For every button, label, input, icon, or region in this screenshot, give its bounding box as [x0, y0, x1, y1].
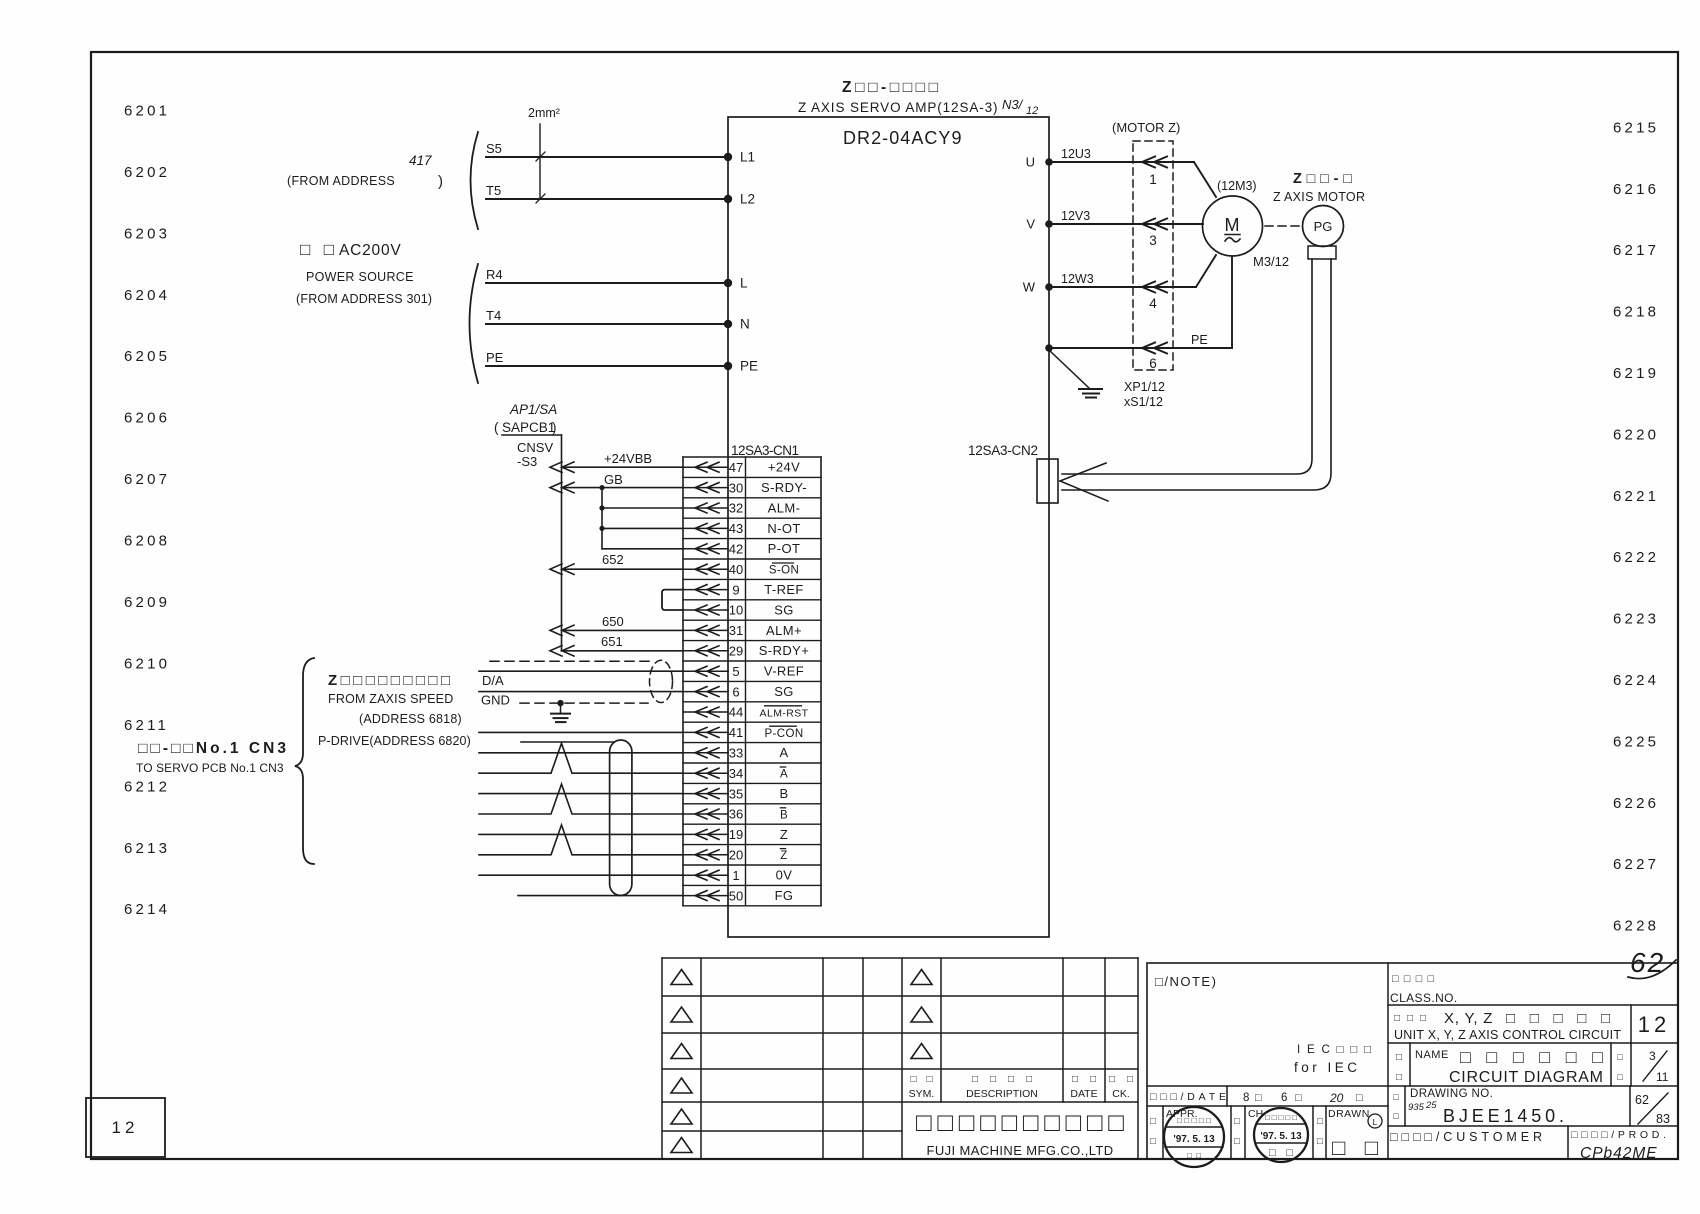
connector XP1/12 (MOTOR Z) dashed outline [1112, 120, 1180, 370]
svg-text:6204: 6204 [124, 287, 170, 304]
svg-text:□: □ [1356, 1092, 1363, 1104]
wire 651 from pin 29 to CNSV-S3 [550, 634, 683, 656]
svg-text:42: 42 [729, 542, 743, 557]
svg-text:50: 50 [729, 888, 743, 903]
node 6205 (left line number) [124, 348, 170, 365]
svg-text:DR2-04ACY9: DR2-04ACY9 [843, 128, 963, 148]
svg-text:DRAWN: DRAWN [1328, 1108, 1370, 1120]
svg-text:□□□□/PROD.: □□□□/PROD. [1571, 1129, 1666, 1141]
svg-text:0V: 0V [776, 868, 793, 883]
wire: CNSV-S3 bus [561, 435, 563, 651]
node 6218 (right line number) [1613, 304, 1659, 321]
svg-text:12SA3-CN1: 12SA3-CN1 [731, 443, 799, 458]
svg-text:PE: PE [1191, 333, 1208, 347]
node 6228 (right line number) [1613, 918, 1659, 935]
svg-text:A: A [780, 769, 788, 781]
node 6224 (right line number) [1613, 672, 1659, 689]
svg-text:+24V: +24V [768, 460, 800, 475]
svg-text:(: ( [494, 420, 499, 435]
node 6222 (right line number) [1613, 549, 1659, 566]
svg-text:V: V [1026, 217, 1035, 232]
svg-text:83: 83 [1656, 1112, 1670, 1126]
svg-text:6208: 6208 [124, 533, 170, 550]
page fraction 3/11 [1617, 1049, 1669, 1084]
ground symbol at amp PE output [1049, 350, 1102, 398]
svg-text:2mm²: 2mm² [528, 106, 560, 120]
svg-text:□: □ [1234, 1116, 1240, 1127]
svg-text:P-CON: P-CON [764, 728, 803, 740]
title block frame [1147, 963, 1678, 1159]
pin 32 ALM- [683, 500, 821, 518]
twisted pair wires to pins 33/34 [479, 743, 683, 773]
servo amp title (Z-axis servo amp) [798, 79, 998, 115]
svg-text:xS1/12: xS1/12 [1124, 395, 1163, 409]
svg-text:N3/: N3/ [1002, 97, 1024, 112]
connector 12SA3-CN1 label [731, 443, 799, 458]
wire FG shield to pin 50 [518, 895, 683, 897]
svg-text:20: 20 [1329, 1091, 1344, 1105]
svg-text:for IEC: for IEC [1294, 1060, 1361, 1075]
node 6203 (left line number) [124, 225, 170, 242]
wire U phase 12U3 [1026, 147, 1216, 197]
wire R4 to amp pin L [486, 267, 748, 291]
svg-text:Z□□-□□□□: Z□□-□□□□ [842, 79, 939, 96]
pin 43 N-OT [683, 521, 821, 539]
node 6215 (right line number) [1613, 119, 1659, 136]
svg-text:DESCRIPTION: DESCRIPTION [966, 1088, 1038, 1100]
svg-text:6225: 6225 [1613, 733, 1659, 750]
node 6227 (right line number) [1613, 856, 1659, 873]
cable bracket for S5/T5 [471, 132, 479, 229]
svg-text:Z AXIS SERVO AMP(12SA-3): Z AXIS SERVO AMP(12SA-3) [798, 100, 998, 115]
svg-text:6227: 6227 [1613, 856, 1659, 873]
pin 36 B (active low) [683, 807, 821, 825]
svg-text:B: B [779, 786, 788, 801]
node 6202 (left line number) [124, 164, 170, 181]
svg-text:6203: 6203 [124, 225, 170, 242]
svg-text:6213: 6213 [124, 840, 170, 857]
svg-text:PE: PE [486, 350, 504, 365]
svg-text:□: □ [1393, 1092, 1399, 1102]
svg-text:N: N [740, 317, 750, 332]
svg-text:W: W [1023, 280, 1036, 295]
svg-text:12: 12 [1638, 1012, 1670, 1037]
svg-text:6223: 6223 [1613, 611, 1659, 628]
wire 650 from pin 31 to CNSV-S3 [550, 614, 683, 636]
pin 41 P-CON (active low) [683, 725, 821, 743]
svg-text:'97. 5. 13: '97. 5. 13 [1260, 1131, 1302, 1142]
product no cell CPb42ME [1571, 1129, 1666, 1162]
wire T4 to amp pin N [486, 308, 750, 332]
label: from address 417 [287, 153, 443, 190]
svg-text:ALM-: ALM- [768, 500, 801, 515]
connector 12SA3-CN2 [968, 443, 1058, 503]
svg-text:6226: 6226 [1613, 795, 1659, 812]
pin 42 P-OT [683, 541, 821, 559]
svg-text:□□□□□: □□□□□ [1265, 1113, 1297, 1122]
svg-text:417: 417 [409, 153, 432, 168]
svg-text:L: L [740, 276, 748, 291]
svg-text:1: 1 [1149, 172, 1157, 187]
svg-text:M: M [1225, 215, 1240, 235]
svg-text:6216: 6216 [1613, 181, 1659, 198]
svg-text:35: 35 [729, 786, 743, 801]
svg-text:29: 29 [729, 644, 743, 659]
svg-text:GND: GND [481, 693, 510, 708]
svg-text:□: □ [1317, 1116, 1323, 1127]
page number box 12 (bottom-left) [86, 1098, 165, 1157]
svg-text:(ADDRESS 6818): (ADDRESS 6818) [359, 712, 462, 726]
revision table (left block) [662, 958, 1138, 1159]
svg-text:6: 6 [1281, 1092, 1287, 1104]
wire PE to motor frame [1045, 257, 1232, 354]
pin 34 A (active low) [683, 766, 821, 784]
twisted pair wires to pins 19/20 [479, 825, 683, 855]
check stamp column [1234, 1108, 1263, 1147]
wire to pin 1 0V [479, 874, 683, 876]
pin 35 B [683, 786, 821, 804]
svg-text:6217: 6217 [1613, 242, 1659, 259]
revision table header SYM/DESCRIPTION/DATE/CK [909, 1074, 1133, 1100]
svg-text:AP1/SA: AP1/SA [509, 402, 557, 417]
svg-text:6202: 6202 [124, 164, 170, 181]
svg-text:40: 40 [729, 562, 743, 577]
svg-text:SYM.: SYM. [909, 1088, 935, 1100]
svg-text:36: 36 [729, 807, 743, 822]
pin 10 SG [683, 602, 821, 620]
name cell: circuit diagram [1396, 1047, 1603, 1086]
svg-text:30: 30 [729, 480, 743, 495]
pin 9 T-REF [683, 582, 821, 600]
svg-text:P-DRIVE(ADDRESS 6820): P-DRIVE(ADDRESS 6820) [318, 734, 471, 748]
sheet number 12 [1638, 1012, 1670, 1037]
svg-text:12V3: 12V3 [1061, 209, 1090, 223]
svg-text:44: 44 [729, 705, 743, 720]
svg-text:T4: T4 [486, 308, 501, 323]
svg-text:8: 8 [1243, 1092, 1249, 1104]
svg-text:6: 6 [1149, 356, 1157, 371]
svg-text:FUJI MACHINE MFG.CO.,LTD: FUJI MACHINE MFG.CO.,LTD [926, 1143, 1113, 1158]
svg-text:4: 4 [1149, 296, 1157, 311]
pin 3 of motor connector [1149, 233, 1157, 248]
svg-text:□: □ [1317, 1136, 1323, 1147]
node 6204 (left line number) [124, 287, 170, 304]
label: wire gauge 2mm2 [528, 106, 560, 203]
cable shield around V-REF/SG pair [490, 660, 673, 703]
connector CNSV-S3 on board AP1/SA (SAPCB1) [494, 402, 562, 469]
svg-text:6201: 6201 [124, 102, 170, 119]
brace: to servo PCB No.1 CN3 [295, 658, 314, 864]
svg-text:GB: GB [604, 472, 623, 487]
node 6211 (left line number) [124, 717, 169, 734]
svg-text:652: 652 [602, 552, 624, 567]
pin 47 +24V [683, 460, 821, 478]
svg-text:FG: FG [775, 888, 794, 903]
svg-text:6219: 6219 [1613, 365, 1659, 382]
pin 1 of motor connector [1149, 172, 1157, 187]
svg-text:'97. 5. 13: '97. 5. 13 [1173, 1134, 1215, 1145]
svg-text:935: 935 [1408, 1102, 1425, 1113]
svg-text:L2: L2 [740, 192, 755, 207]
svg-text:6214: 6214 [124, 901, 170, 918]
svg-text:20: 20 [729, 848, 743, 863]
svg-text:□: □ [1150, 1116, 1156, 1127]
revision triangles (right table) [911, 970, 932, 1059]
svg-text:N-OT: N-OT [767, 521, 800, 536]
svg-text:□/NOTE): □/NOTE) [1155, 974, 1217, 989]
svg-text:T5: T5 [486, 183, 501, 198]
svg-text:M3/12: M3/12 [1253, 254, 1289, 269]
svg-text:25: 25 [1425, 1100, 1437, 1111]
svg-text:Z: Z [780, 827, 788, 842]
svg-text:6210: 6210 [124, 656, 170, 673]
node 6225 (right line number) [1613, 733, 1659, 750]
svg-text:DATE: DATE [1070, 1088, 1097, 1100]
svg-text:ALM-RST: ALM-RST [760, 707, 809, 719]
pin 29 S-RDY+ [683, 643, 821, 661]
node 6212 (left line number) [124, 778, 170, 795]
encoder connector box [1308, 246, 1336, 259]
node 6214 (left line number) [124, 901, 170, 918]
node 6207 (left line number) [124, 471, 170, 488]
svg-text:L: L [1373, 1117, 1378, 1127]
svg-text:6215: 6215 [1613, 119, 1659, 136]
svg-text:6221: 6221 [1613, 488, 1659, 505]
svg-text:SG: SG [774, 684, 794, 699]
pin 4 of motor connector [1149, 296, 1157, 311]
svg-text:P-OT: P-OT [768, 541, 801, 556]
svg-text:L1: L1 [740, 150, 755, 165]
node 6221 (right line number) [1613, 488, 1659, 505]
pin 20 Z (active low) [683, 848, 821, 866]
svg-text:12U3: 12U3 [1061, 147, 1091, 161]
svg-text:U: U [1026, 155, 1035, 170]
svg-text:SAPCB1: SAPCB1 [502, 420, 555, 435]
node 6226 (right line number) [1613, 795, 1659, 812]
svg-text:3: 3 [1149, 233, 1157, 248]
svg-text:32: 32 [729, 501, 743, 516]
wire P-DRIVE to pin 41 P-CON [479, 731, 683, 733]
approval stamp column [1150, 1108, 1198, 1147]
svg-text:S-RDY-: S-RDY- [761, 480, 807, 495]
svg-text:6205: 6205 [124, 348, 170, 365]
svg-text:43: 43 [729, 521, 743, 536]
svg-text:): ) [438, 173, 443, 190]
svg-text:□□□/DATE: □□□/DATE [1150, 1091, 1226, 1103]
svg-text:□: □ [1150, 1136, 1156, 1147]
svg-text:6224: 6224 [1613, 672, 1659, 689]
svg-text:34: 34 [729, 766, 743, 781]
wire: jumper pin 9 to pin 10 [662, 590, 683, 610]
svg-text:(FROM ADDRESS: (FROM ADDRESS [287, 174, 395, 188]
svg-text:□: □ [1255, 1092, 1262, 1104]
revision triangles (left table) [671, 970, 692, 1153]
svg-text:6212: 6212 [124, 778, 170, 795]
svg-text:Z: Z [780, 850, 787, 862]
svg-text:□: □ [1234, 1136, 1240, 1147]
pin 19 Z [683, 827, 821, 845]
approval stamp (hanko) [1164, 1107, 1224, 1167]
wire: motor to encoder (dashed shaft) [1265, 225, 1301, 227]
svg-text:12W3: 12W3 [1061, 272, 1094, 286]
wire PE to amp pin PE [486, 350, 758, 374]
node 6217 (right line number) [1613, 242, 1659, 259]
wire GND to pin 6 SG [479, 692, 683, 708]
svg-text:6: 6 [732, 684, 739, 699]
svg-text:□: □ [1295, 1092, 1302, 1104]
svg-text:-S3: -S3 [517, 454, 537, 469]
svg-text:□: □ [1617, 1072, 1623, 1082]
shield drain stub at cable [521, 741, 614, 743]
svg-text:(12M3): (12M3) [1217, 179, 1257, 193]
svg-text:□□□: □□□ [1394, 1013, 1426, 1024]
pin 5 V-REF [683, 664, 821, 682]
svg-text:FROM ZAXIS SPEED: FROM ZAXIS SPEED [328, 692, 453, 706]
node 6219 (right line number) [1613, 365, 1659, 382]
svg-text:6211: 6211 [124, 717, 169, 734]
svg-text:12: 12 [1026, 105, 1038, 117]
handwritten 62 above title block [1628, 947, 1676, 979]
wire S5 to amp pin L1 [486, 141, 755, 165]
wire T5 to amp pin L2 [486, 183, 755, 207]
wire 652 from pin 40 to CNSV-S3 [550, 552, 683, 574]
svg-text:A: A [779, 745, 788, 760]
svg-text:651: 651 [601, 634, 623, 649]
svg-text:6206: 6206 [124, 410, 170, 427]
svg-text:12: 12 [112, 1118, 139, 1137]
connector CN1 table frame [683, 457, 821, 906]
svg-text:□: □ [1393, 1111, 1399, 1121]
svg-text:PG: PG [1314, 219, 1333, 234]
pin 30 S-RDY- [683, 480, 821, 498]
svg-text:CNSV: CNSV [517, 440, 553, 455]
svg-text:XP1/12: XP1/12 [1124, 380, 1165, 394]
svg-text:31: 31 [729, 623, 743, 638]
svg-text:AC200V: AC200V [339, 242, 402, 259]
svg-text:ALM+: ALM+ [766, 623, 802, 638]
node 6210 (left line number) [124, 656, 170, 673]
svg-text:BJEE1450.: BJEE1450. [1443, 1106, 1566, 1126]
svg-text:□: □ [1396, 1052, 1402, 1063]
svg-text:S-RDY+: S-RDY+ [759, 643, 809, 658]
svg-text:R4: R4 [486, 267, 503, 282]
svg-text:): ) [552, 420, 557, 435]
encoder PG [1303, 206, 1344, 247]
svg-text:CPb42ME: CPb42ME [1580, 1145, 1658, 1162]
label: power source AC200V [296, 240, 432, 306]
svg-text:12SA3-CN2: 12SA3-CN2 [968, 443, 1038, 458]
node 6209 (left line number) [124, 594, 170, 611]
svg-text:6228: 6228 [1613, 918, 1659, 935]
node 6208 (left line number) [124, 533, 170, 550]
wire W phase 12W3 [1023, 255, 1216, 295]
pin 40 S-ON (active low) [683, 562, 821, 580]
svg-text:5: 5 [732, 664, 739, 679]
svg-text:X, Y, Z: X, Y, Z [1444, 1010, 1493, 1027]
label: to servo PCB No.1 CN3 [136, 740, 286, 775]
date row [1150, 1091, 1363, 1105]
pin 1 0V [683, 868, 821, 886]
svg-text:CLASS.NO.: CLASS.NO. [1390, 991, 1458, 1005]
pin 44 ALM-RST (active low) [683, 705, 821, 723]
class no cell [1390, 973, 1458, 1005]
unit name cell: X,Y,Z axis control circuit [1394, 1010, 1621, 1042]
drawn column [1317, 1108, 1382, 1160]
svg-text:11: 11 [1656, 1070, 1669, 1084]
svg-text:6220: 6220 [1613, 426, 1659, 443]
svg-text:6218: 6218 [1613, 304, 1659, 321]
svg-text:CIRCUIT DIAGRAM: CIRCUIT DIAGRAM [1449, 1069, 1603, 1086]
svg-text:D/A: D/A [482, 673, 504, 688]
svg-text:6209: 6209 [124, 594, 170, 611]
svg-text:SG: SG [774, 602, 794, 617]
svg-text:TO SERVO PCB No.1 CN3: TO SERVO PCB No.1 CN3 [136, 761, 284, 775]
svg-text:62: 62 [1635, 1093, 1649, 1107]
svg-text:S5: S5 [486, 141, 502, 156]
svg-text:□: □ [1396, 1072, 1402, 1083]
ground symbol on shield drain [551, 700, 570, 722]
svg-text:(MOTOR Z): (MOTOR Z) [1112, 120, 1180, 135]
pin 31 ALM+ [683, 623, 821, 641]
cable shield oval around encoder pair wires [610, 740, 632, 896]
svg-text:1: 1 [732, 868, 739, 883]
svg-text:+24VBB: +24VBB [604, 451, 652, 466]
svg-text:T-REF: T-REF [764, 582, 804, 597]
node 6213 (left line number) [124, 840, 170, 857]
svg-text:650: 650 [602, 614, 624, 629]
pin 33 A [683, 745, 821, 763]
svg-text:33: 33 [729, 746, 743, 761]
svg-text:NAME: NAME [1415, 1049, 1449, 1061]
svg-text:10: 10 [729, 603, 743, 618]
node 6216 (right line number) [1613, 181, 1659, 198]
motor M1 (12M3) Z axis motor [1203, 179, 1290, 269]
wire +24VBB from pin 47 to CNSV-S3 [550, 451, 683, 472]
op-amp enclosure U1: servo amplifier DR2-04ACY9 box [728, 117, 1049, 937]
wire D/A to pin 5 V-REF [479, 671, 683, 688]
handwritten note N3/12 [1002, 97, 1038, 117]
customer cell [1390, 1130, 1542, 1144]
svg-text:CK.: CK. [1112, 1088, 1130, 1100]
label: Z axis motor [1273, 171, 1365, 204]
wire V phase 12V3 [1026, 209, 1203, 232]
company name cell [916, 1107, 1124, 1158]
pin 6 SG [683, 684, 821, 702]
pin 50 FG [683, 888, 821, 906]
svg-text:Z AXIS MOTOR: Z AXIS MOTOR [1273, 190, 1365, 204]
svg-text:S-ON: S-ON [769, 565, 799, 577]
connector label XP1/12 xS1/12 [1124, 380, 1165, 409]
svg-text:3: 3 [1649, 1049, 1656, 1063]
svg-text:6222: 6222 [1613, 549, 1659, 566]
check stamp (hanko) 97.5.13 yamamoto [1254, 1108, 1308, 1162]
svg-text:PE: PE [740, 359, 758, 374]
node 6206 (left line number) [124, 410, 170, 427]
node 6223 (right line number) [1613, 611, 1659, 628]
svg-text:41: 41 [729, 725, 743, 740]
wire: GB common tie (pins 30/32/43/42) [599, 485, 683, 549]
svg-text:(FROM ADDRESS 301): (FROM ADDRESS 301) [296, 292, 432, 306]
note cell [1155, 974, 1371, 1075]
svg-text:□: □ [1617, 1052, 1623, 1062]
svg-text:19: 19 [729, 827, 743, 842]
svg-text:B: B [780, 809, 788, 821]
svg-text:6207: 6207 [124, 471, 170, 488]
svg-text:DRAWING NO.: DRAWING NO. [1410, 1088, 1493, 1100]
cable bracket for R4/T4/PE [470, 264, 479, 383]
wire GB from pin 30 to CNSV-S3 [550, 472, 683, 493]
encoder cable to CN2 [1060, 259, 1331, 501]
